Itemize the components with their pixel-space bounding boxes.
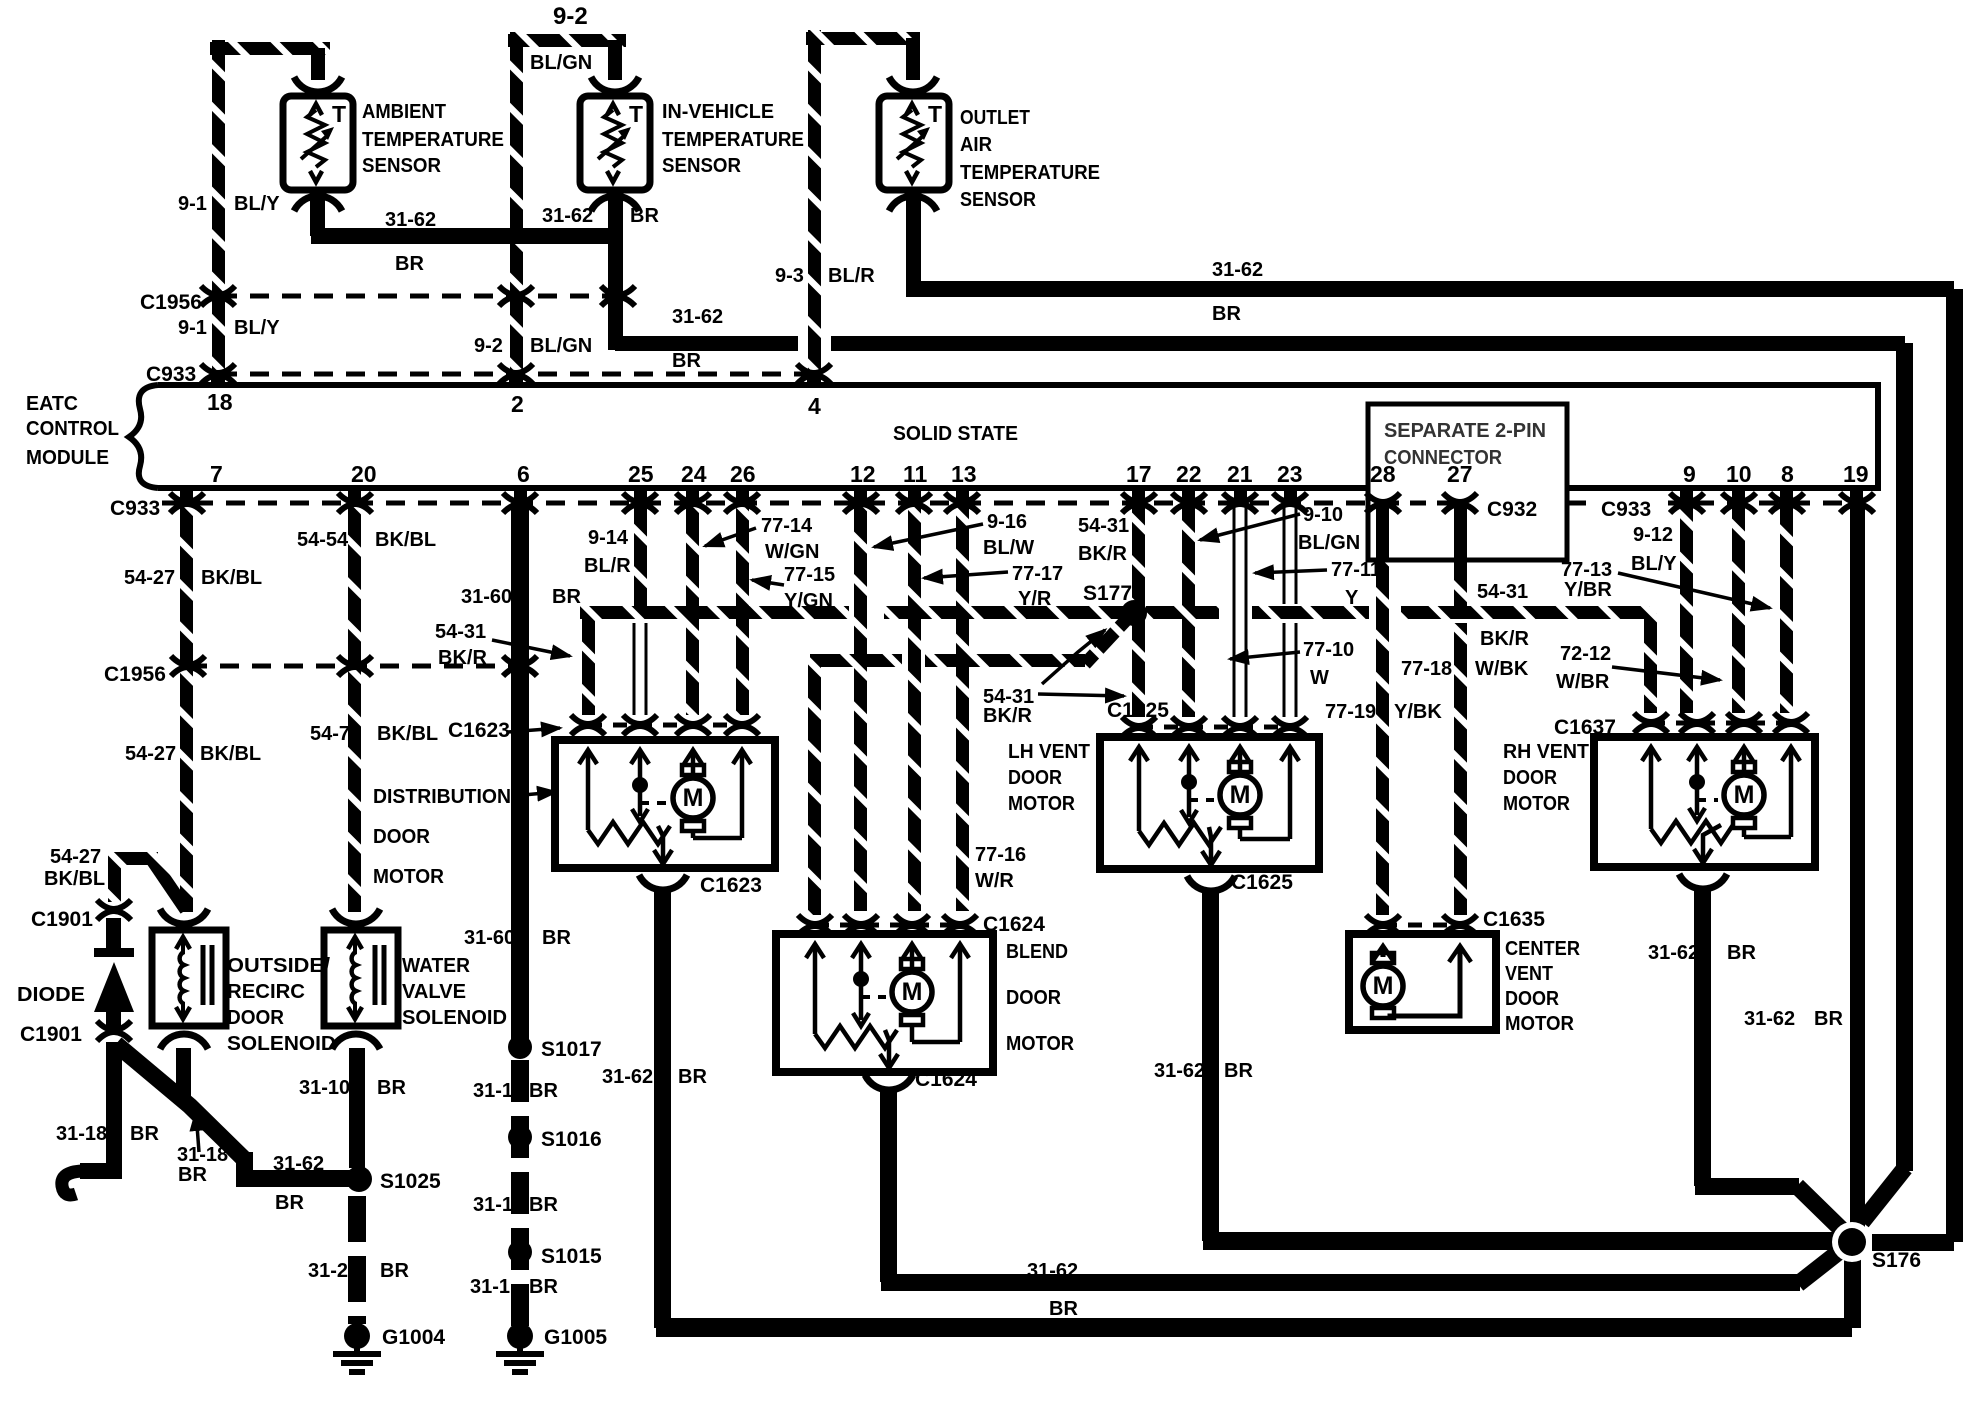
svg-text:9-10: 9-10	[1303, 504, 1343, 526]
wire 54-31 BK/R (pin 17)	[1132, 503, 1145, 717]
svg-text:Y: Y	[1345, 587, 1359, 609]
svg-text:6: 6	[517, 461, 530, 487]
svg-text:BL/Y: BL/Y	[234, 317, 280, 339]
svg-text:W/BR: W/BR	[1556, 671, 1610, 693]
connector C933 dashed line (module row)	[162, 501, 1368, 506]
connector bowties C1956/C933 top rows	[201, 286, 235, 306]
svg-text:BLEND: BLEND	[1006, 941, 1068, 963]
svg-text:BK/R: BK/R	[983, 705, 1032, 727]
splice S177	[1121, 600, 1147, 626]
svg-text:BL/R: BL/R	[584, 555, 631, 577]
svg-text:9-1: 9-1	[178, 317, 207, 339]
svg-text:C1901: C1901	[20, 1023, 82, 1046]
svg-text:C932: C932	[1487, 498, 1537, 521]
wire 31-62 BR from in-vehicle sensor	[608, 198, 623, 350]
svg-text:M: M	[1734, 781, 1755, 809]
wire 31-62 BR from C1625	[1202, 893, 1219, 1241]
wire 31-18 BR diagonal to S1025	[116, 1044, 244, 1159]
separate 2-pin connector box	[1368, 404, 1567, 560]
svg-text:MOTOR: MOTOR	[373, 866, 445, 888]
svg-text:C1624: C1624	[983, 913, 1045, 936]
splice S176	[1832, 1222, 1872, 1262]
svg-text:G1005: G1005	[544, 1326, 607, 1349]
svg-text:BK/R: BK/R	[438, 647, 487, 669]
ambient temperature sensor	[283, 96, 353, 190]
wire 77-14 W/GN (pin 24)	[686, 503, 699, 715]
svg-text:OUTSIDE/: OUTSIDE/	[227, 955, 330, 977]
svg-text:AIR: AIR	[960, 134, 993, 156]
center vent door motor box	[1349, 934, 1496, 1030]
svg-text:17: 17	[1126, 461, 1152, 487]
svg-text:MOTOR: MOTOR	[1503, 793, 1570, 815]
diode CR1	[94, 948, 134, 957]
wire 9-3 BL/R	[808, 30, 821, 374]
svg-text:54-31: 54-31	[1477, 581, 1528, 603]
svg-text:W/R: W/R	[975, 870, 1014, 892]
svg-text:10: 10	[1726, 461, 1752, 487]
wire 77-10 W (pin 21, white)	[1233, 505, 1236, 717]
svg-text:31-60: 31-60	[464, 927, 515, 949]
svg-text:22: 22	[1176, 461, 1202, 487]
svg-text:11: 11	[903, 461, 928, 487]
svg-text:DISTRIBUTION: DISTRIBUTION	[373, 786, 511, 808]
svg-text:W: W	[1310, 667, 1329, 689]
svg-text:CONNECTOR: CONNECTOR	[1384, 447, 1503, 469]
wire 9-2 BL/GN	[510, 32, 523, 374]
splice S1025	[346, 1166, 372, 1192]
distribution door motor box	[555, 740, 775, 868]
svg-text:31-18: 31-18	[177, 1144, 228, 1166]
svg-text:9-2: 9-2	[474, 335, 503, 357]
svg-text:54-7: 54-7	[310, 723, 350, 745]
svg-text:2: 2	[511, 391, 524, 417]
svg-text:DOOR: DOOR	[1505, 988, 1560, 1010]
svg-text:BR: BR	[672, 350, 701, 372]
svg-text:9-14: 9-14	[588, 527, 629, 549]
svg-text:BL/GN: BL/GN	[530, 52, 592, 74]
svg-text:BR: BR	[552, 586, 581, 608]
svg-text:M: M	[1230, 781, 1251, 809]
svg-text:BR: BR	[377, 1077, 406, 1099]
wire 9-1 BL/Y	[212, 40, 225, 374]
svg-text:DOOR: DOOR	[1503, 767, 1558, 789]
svg-text:IN-VEHICLE: IN-VEHICLE	[662, 101, 774, 123]
RH vent door motor internals M4	[1642, 747, 1660, 761]
svg-text:SENSOR: SENSOR	[362, 155, 442, 177]
svg-text:54-54: 54-54	[297, 529, 349, 551]
distribution door motor internals M1	[579, 750, 597, 764]
svg-text:TEMPERATURE: TEMPERATURE	[662, 129, 804, 151]
svg-text:BR: BR	[130, 1123, 159, 1145]
connector C1956 dashed line (module row)	[188, 664, 522, 669]
wire 31-62 BR from C1624	[880, 1092, 897, 1282]
ground G1004	[344, 1323, 370, 1349]
svg-text:54-27: 54-27	[50, 846, 101, 868]
svg-text:13: 13	[951, 461, 977, 487]
svg-text:19: 19	[1843, 461, 1869, 487]
wire 9-16 BL/W (pin 12)	[854, 503, 867, 911]
wire 31-62 BR (pin 19)	[1850, 503, 1865, 1242]
svg-text:54-31: 54-31	[1078, 515, 1129, 537]
svg-text:S1017: S1017	[541, 1038, 602, 1061]
svg-text:31-1: 31-1	[473, 1194, 513, 1216]
svg-text:BR: BR	[529, 1080, 558, 1102]
wire 54-27 BK/BL (pin 7)	[180, 503, 193, 666]
svg-text:WATER: WATER	[402, 955, 471, 977]
svg-text:C1623: C1623	[700, 874, 762, 897]
svg-text:TEMPERATURE: TEMPERATURE	[362, 129, 504, 151]
svg-text:T: T	[332, 101, 346, 127]
svg-text:BL/Y: BL/Y	[1631, 553, 1677, 575]
svg-text:31-10: 31-10	[299, 1077, 350, 1099]
svg-text:31-62: 31-62	[1154, 1060, 1205, 1082]
svg-text:31-1: 31-1	[470, 1276, 510, 1298]
svg-text:31-1: 31-1	[473, 1080, 513, 1102]
svg-text:OUTLET: OUTLET	[960, 107, 1030, 129]
svg-text:LH VENT: LH VENT	[1008, 741, 1090, 763]
solenoid pin connectors	[160, 909, 208, 924]
wire 77-11 Y (pin 23, white)	[1283, 505, 1286, 604]
wire 77-18 W/BK (pin 27)	[1454, 503, 1467, 606]
svg-text:G1004: G1004	[382, 1326, 445, 1349]
wire 31-62 BR from ambient sensor	[310, 198, 325, 236]
svg-text:9: 9	[1683, 461, 1696, 487]
wire 77-15 Y/GN (pin 26)	[736, 503, 749, 715]
svg-text:M: M	[683, 784, 704, 812]
svg-text:SENSOR: SENSOR	[662, 155, 742, 177]
wire 54-31 BK/R lower bus	[810, 654, 902, 667]
svg-text:RH VENT: RH VENT	[1503, 741, 1589, 763]
svg-text:77-19: 77-19	[1325, 701, 1376, 723]
module bottom pin stubs	[180, 488, 193, 503]
RH vent door motor box	[1594, 737, 1815, 867]
svg-text:BR: BR	[275, 1192, 304, 1214]
svg-text:RECIRC: RECIRC	[227, 981, 305, 1003]
svg-text:BL/Y: BL/Y	[234, 193, 280, 215]
wire 77-13 Y/BR (pin 8)	[1780, 503, 1793, 713]
svg-text:T: T	[928, 101, 942, 127]
center vent door motor internals M5	[1372, 946, 1394, 962]
svg-text:C1635: C1635	[1483, 908, 1545, 931]
svg-text:TEMPERATURE: TEMPERATURE	[960, 162, 1100, 184]
blend door motor box	[776, 934, 993, 1072]
wire 77-17 Y/R (pin 11)	[908, 503, 921, 911]
svg-text:S176: S176	[1872, 1249, 1921, 1272]
svg-text:VENT: VENT	[1505, 963, 1553, 985]
svg-text:C1956: C1956	[140, 291, 202, 314]
splice S1015	[508, 1240, 532, 1264]
svg-text:26: 26	[730, 461, 756, 487]
svg-text:BR: BR	[1224, 1060, 1253, 1082]
svg-text:BK/R: BK/R	[1078, 543, 1127, 565]
svg-text:SENSOR: SENSOR	[960, 189, 1036, 211]
svg-text:Y/BK: Y/BK	[1394, 701, 1442, 723]
svg-text:MOTOR: MOTOR	[1008, 793, 1075, 815]
connector C1637 dashed row	[1651, 721, 1791, 726]
svg-text:8: 8	[1781, 461, 1794, 487]
svg-text:BL/GN: BL/GN	[530, 335, 592, 357]
wire 54-54 / 54-7 BK/BL (pin 20)	[348, 503, 361, 666]
svg-text:77-18: 77-18	[1401, 658, 1452, 680]
svg-text:C1624: C1624	[915, 1068, 977, 1091]
wire 31-18 BR with hook	[80, 1042, 114, 1171]
svg-text:MODULE: MODULE	[26, 447, 109, 469]
svg-text:VALVE: VALVE	[402, 981, 466, 1003]
svg-text:DOOR: DOOR	[227, 1007, 285, 1029]
wire 31-62 BR from outlet air sensor	[906, 198, 921, 289]
svg-text:BR: BR	[529, 1276, 558, 1298]
svg-text:BR: BR	[395, 253, 424, 275]
svg-text:31-62: 31-62	[385, 209, 436, 231]
svg-text:DOOR: DOOR	[373, 826, 431, 848]
svg-text:BR: BR	[1814, 1008, 1843, 1030]
ground G1005	[507, 1323, 533, 1349]
svg-text:M: M	[902, 978, 923, 1006]
connector C1625 dashed row	[1139, 725, 1290, 730]
svg-text:C1625: C1625	[1107, 699, 1169, 722]
wire 31-10 BR from water valve solenoid	[349, 1048, 365, 1168]
svg-text:31-62: 31-62	[1212, 259, 1263, 281]
svg-text:S177: S177	[1083, 582, 1132, 605]
svg-text:31-62: 31-62	[273, 1153, 324, 1175]
connector C1956 dashed line (sensor harness)	[218, 294, 624, 299]
svg-text:C1623: C1623	[448, 719, 510, 742]
label pointer arrows	[705, 528, 756, 546]
svg-text:BK/BL: BK/BL	[201, 567, 262, 589]
svg-text:MOTOR: MOTOR	[1006, 1033, 1075, 1055]
module pin 18, 2, 4 stubs	[211, 374, 225, 385]
svg-text:7: 7	[210, 461, 223, 487]
in-vehicle temperature sensor	[580, 96, 650, 190]
svg-text:9-12: 9-12	[1633, 524, 1673, 546]
svg-text:Y/GN: Y/GN	[784, 590, 833, 612]
outside/recirc door solenoid	[152, 930, 226, 1026]
svg-text:BR: BR	[630, 205, 659, 227]
wire 31-62 BR from C1637	[1694, 891, 1711, 1186]
svg-text:C1901: C1901	[31, 908, 93, 931]
svg-text:SOLENOID: SOLENOID	[227, 1033, 336, 1055]
svg-text:SOLENOID: SOLENOID	[402, 1007, 507, 1029]
svg-text:BR: BR	[529, 1194, 558, 1216]
svg-text:C933: C933	[1601, 498, 1651, 521]
outlet air temperature sensor	[879, 96, 949, 190]
svg-text:BK/BL: BK/BL	[44, 868, 105, 890]
svg-text:31-18: 31-18	[56, 1123, 107, 1145]
wire 9-10 BL/GN (pin 22)	[1182, 503, 1195, 717]
svg-text:9-1: 9-1	[178, 193, 207, 215]
svg-text:S1015: S1015	[541, 1245, 602, 1268]
svg-text:31-60: 31-60	[461, 586, 512, 608]
blend door motor internals M2	[806, 944, 824, 958]
svg-text:BR: BR	[1049, 1298, 1078, 1320]
motor output connectors	[639, 875, 687, 890]
svg-text:31-62: 31-62	[602, 1066, 653, 1088]
module pin connectors at C933 row	[170, 493, 204, 513]
svg-text:DOOR: DOOR	[1008, 767, 1063, 789]
svg-text:C1637: C1637	[1554, 716, 1616, 739]
svg-text:BR: BR	[380, 1260, 409, 1282]
svg-text:AMBIENT: AMBIENT	[362, 101, 446, 123]
wire 31-60 BR (pin 6)	[511, 503, 529, 1047]
svg-text:C933: C933	[146, 363, 196, 386]
svg-text:31-62: 31-62	[1027, 1260, 1078, 1282]
EATC control module box	[158, 385, 1878, 488]
motor connector bowties	[571, 715, 605, 735]
svg-text:BR: BR	[678, 1066, 707, 1088]
svg-text:BK/BL: BK/BL	[375, 529, 436, 551]
svg-text:54-31: 54-31	[435, 621, 486, 643]
svg-text:24: 24	[681, 461, 707, 487]
svg-text:12: 12	[850, 461, 876, 487]
svg-text:BK/BL: BK/BL	[377, 723, 438, 745]
svg-text:BL/GN: BL/GN	[1298, 532, 1360, 554]
svg-text:W/GN: W/GN	[765, 541, 819, 563]
splice S1016	[508, 1125, 532, 1149]
svg-text:20: 20	[351, 461, 377, 487]
svg-text:SOLID STATE: SOLID STATE	[893, 423, 1018, 445]
connector C1901 pair	[97, 900, 131, 920]
connector C1635 dashed row	[1383, 923, 1460, 928]
svg-text:T: T	[629, 101, 643, 127]
splice S1017	[508, 1035, 532, 1059]
svg-text:SEPARATE 2-PIN: SEPARATE 2-PIN	[1384, 420, 1546, 442]
wire 72-12 W/BR (pin 10)	[1732, 503, 1745, 713]
svg-text:77-10: 77-10	[1303, 639, 1354, 661]
wire 77-16 W/R (pin 13)	[956, 503, 969, 911]
svg-text:S1016: S1016	[541, 1128, 602, 1151]
wire C1901 to diode	[106, 918, 121, 952]
wire 9-14 BL/R lower segment (white)	[633, 623, 636, 715]
svg-text:77-14: 77-14	[761, 515, 813, 537]
svg-text:C1956: C1956	[104, 663, 166, 686]
svg-text:S1025: S1025	[380, 1170, 441, 1193]
svg-text:C1625: C1625	[1231, 871, 1293, 894]
svg-text:CENTER: CENTER	[1505, 938, 1581, 960]
svg-text:31-62: 31-62	[672, 306, 723, 328]
svg-text:77-16: 77-16	[975, 844, 1026, 866]
svg-text:MOTOR: MOTOR	[1505, 1013, 1575, 1035]
svg-text:18: 18	[207, 389, 233, 415]
svg-text:BK/R: BK/R	[1480, 628, 1529, 650]
wire 31-62 BR from C1623	[654, 892, 671, 1328]
svg-text:77-11: 77-11	[1331, 559, 1381, 581]
LH vent door motor box	[1100, 737, 1319, 869]
svg-text:31-62: 31-62	[542, 205, 593, 227]
svg-text:77-17: 77-17	[1012, 563, 1063, 585]
svg-text:BR: BR	[1212, 303, 1241, 325]
svg-text:9-16: 9-16	[987, 511, 1027, 533]
connector C933 dashed line (top)	[218, 372, 814, 377]
svg-text:BK/BL: BK/BL	[200, 743, 261, 765]
wire from outside/recirc solenoid	[176, 1048, 191, 1105]
wire 9-14 BL/R (pin 25)	[634, 503, 647, 606]
wire 54-27 BK/BL branch to diode	[108, 852, 158, 865]
svg-text:BR: BR	[178, 1164, 207, 1186]
wire 9-12 BL/Y (pin 9)	[1680, 503, 1693, 713]
water valve solenoid	[324, 930, 398, 1026]
svg-text:25: 25	[628, 461, 654, 487]
LH vent door motor internals M3	[1130, 747, 1148, 761]
svg-text:DIODE: DIODE	[17, 984, 85, 1006]
svg-text:9-2: 9-2	[553, 3, 588, 30]
svg-text:54-27: 54-27	[124, 567, 175, 589]
svg-text:Y/R: Y/R	[1018, 588, 1052, 610]
svg-text:54-27: 54-27	[125, 743, 176, 765]
svg-text:4: 4	[808, 393, 821, 419]
sensor pin connectors	[294, 77, 342, 92]
svg-text:BR: BR	[1727, 942, 1756, 964]
svg-text:M: M	[1373, 972, 1394, 1000]
svg-text:31-62: 31-62	[1744, 1008, 1795, 1030]
svg-text:31-2: 31-2	[308, 1260, 348, 1282]
svg-text:9-3: 9-3	[775, 265, 804, 287]
svg-text:BL/R: BL/R	[828, 265, 875, 287]
svg-text:W/BK: W/BK	[1475, 658, 1529, 680]
svg-text:77-13: 77-13	[1561, 559, 1612, 581]
svg-text:72-12: 72-12	[1560, 643, 1611, 665]
svg-text:C933: C933	[110, 497, 160, 520]
svg-text:77-15: 77-15	[784, 564, 835, 586]
svg-text:EATC: EATC	[26, 393, 78, 415]
svg-text:BR: BR	[542, 927, 571, 949]
wire S176 bottom stub	[1844, 1242, 1861, 1328]
svg-text:BL/W: BL/W	[983, 537, 1034, 559]
svg-text:Y/BR: Y/BR	[1564, 579, 1612, 601]
svg-text:21: 21	[1227, 461, 1253, 487]
connector C1624 dashed row	[815, 923, 962, 928]
svg-text:23: 23	[1277, 461, 1303, 487]
wire 54-31 BK/R bus	[580, 606, 849, 619]
svg-text:31-62: 31-62	[1648, 942, 1699, 964]
connector C1623 dashed row	[588, 723, 742, 728]
svg-text:DOOR: DOOR	[1006, 987, 1062, 1009]
wire 77-19 Y/BK (pin 28)	[1376, 503, 1389, 915]
svg-text:CONTROL: CONTROL	[26, 418, 119, 440]
